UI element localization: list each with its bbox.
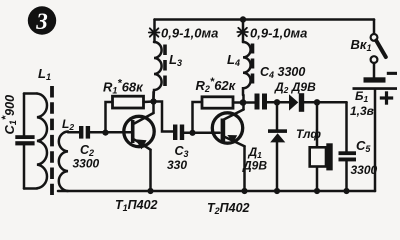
core of L4 (dashed) <box>251 44 255 87</box>
svg-text:Т2П402: Т2П402 <box>207 201 250 216</box>
node C5 on rail <box>343 188 349 194</box>
wire R2 right lead <box>233 101 243 104</box>
ferrite core (antenna rod, dashed) <box>50 86 54 195</box>
wire tank bottom <box>24 187 37 190</box>
capacitor C1 (tank, left branch) <box>15 94 34 189</box>
node R2/base junction <box>189 130 195 136</box>
svg-text:R1*68к: R1*68к <box>103 78 144 96</box>
label D1 D9V <box>242 145 267 173</box>
svg-text:3300: 3300 <box>351 163 378 177</box>
capacitor C5 <box>339 102 357 191</box>
svg-text:С4 3300: С4 3300 <box>260 65 305 80</box>
label C5 3300 <box>351 138 378 177</box>
headphones Tlf <box>310 102 333 191</box>
svg-text:С1*900: С1*900 <box>0 95 18 135</box>
resistor R2 <box>202 97 233 108</box>
node T1 emitter on rail <box>147 188 153 194</box>
wire T2 collector up <box>242 95 245 110</box>
label R2* 62k <box>196 76 237 94</box>
node D1 on rail <box>274 188 280 194</box>
wire T1 collector up <box>152 92 155 113</box>
label L3 <box>169 52 182 68</box>
capacitor C3 <box>173 125 184 141</box>
diode D1 (shunt, pointing up) <box>268 102 287 191</box>
svg-text:0,9-1,0ма: 0,9-1,0ма <box>161 26 218 41</box>
label L1 <box>38 66 51 82</box>
wire C4 to D2 <box>267 101 289 104</box>
wire T2 emitter down <box>243 146 246 191</box>
svg-text:Д9В: Д9В <box>242 159 267 173</box>
svg-text:Тлф: Тлф <box>296 127 321 141</box>
inductor L1 <box>37 94 47 189</box>
svg-text:0,9-1,0ма: 0,9-1,0ма <box>250 26 307 41</box>
wire T1 emitter down <box>149 150 152 191</box>
wire rail to L4 <box>242 20 245 43</box>
svg-text:3300: 3300 <box>73 157 100 171</box>
wire rail left end down <box>153 20 156 43</box>
svg-text:L4: L4 <box>227 52 240 68</box>
svg-text:1,3в: 1,3в <box>350 104 374 118</box>
wire C3 left lead from collector node <box>154 102 174 132</box>
label Tlf <box>296 127 321 141</box>
svg-text:L2: L2 <box>62 117 74 132</box>
svg-text:L3: L3 <box>169 52 182 68</box>
svg-text:Б1: Б1 <box>355 89 369 104</box>
wire C2 to T1 base <box>90 131 131 134</box>
node D1 junction <box>274 99 280 105</box>
wire C3 to T2 base <box>184 132 219 135</box>
node collector T1 / L3 / R1 <box>150 98 156 104</box>
top supply rail <box>155 18 375 21</box>
label Vk1 <box>351 37 372 53</box>
wire rail right end down to switch <box>373 20 376 35</box>
svg-text:С5: С5 <box>356 138 371 154</box>
label current 0.9-1.0 ma (1) <box>161 26 218 41</box>
transistor T2 <box>212 110 244 147</box>
label D2 D9V <box>274 80 316 95</box>
transistor T1 <box>124 113 154 150</box>
label current 0.9-1.0 ma (2) <box>250 26 307 41</box>
label L4 <box>227 52 240 68</box>
node rail / L4 tap <box>240 16 246 22</box>
node R1/base junction <box>102 130 108 136</box>
wire R2 left lead <box>193 102 203 133</box>
svg-text:330: 330 <box>167 158 187 172</box>
capacitor C2 <box>79 126 90 139</box>
node phones on rail <box>314 188 320 194</box>
svg-text:L1: L1 <box>38 66 51 82</box>
label C1 900 (rotated) <box>0 95 18 135</box>
label T2 P402 <box>207 201 250 216</box>
battery B1 <box>353 72 398 191</box>
inductor L3 <box>154 42 162 98</box>
wire L2 to C2 <box>68 131 79 134</box>
label R1* 68k <box>103 78 144 96</box>
node collector T2 / L4 / R2 / C4 <box>240 99 247 106</box>
svg-text:С3: С3 <box>175 144 189 159</box>
label C2 3300 <box>73 143 100 171</box>
svg-text:Т1П402: Т1П402 <box>115 198 158 213</box>
label C4 3300 <box>260 65 305 80</box>
svg-text:Вк1: Вк1 <box>351 37 372 53</box>
wire C4 left lead <box>243 101 255 104</box>
node phones junction <box>314 99 320 105</box>
wire D2 to phones node <box>304 101 346 104</box>
svg-text:Д2 Д9В: Д2 Д9В <box>274 80 316 95</box>
inductor L2 <box>59 132 68 191</box>
current break mark x2 <box>237 28 248 36</box>
resistor R1 <box>113 96 144 108</box>
label T1 P402 <box>115 198 158 213</box>
svg-text:R2*62к: R2*62к <box>196 76 237 94</box>
label C3 330 <box>167 144 189 172</box>
inductor L4 <box>243 42 251 95</box>
core of L3 (dashed) <box>163 45 167 90</box>
figure number badge 3 <box>28 6 56 34</box>
diode D2 (series detector) <box>289 93 304 112</box>
wire tank top <box>24 92 37 95</box>
switch Vk1 <box>371 34 386 77</box>
bottom ground rail <box>58 190 375 193</box>
svg-text:3: 3 <box>35 9 48 34</box>
label L2 <box>62 117 74 132</box>
wire R1 left lead <box>106 102 113 132</box>
current break mark x1 <box>149 28 160 36</box>
node T2 emitter on rail <box>241 188 247 194</box>
capacitor C4 <box>255 94 268 110</box>
label B1 1.3V <box>350 89 374 118</box>
wire R1 right lead <box>144 100 154 103</box>
